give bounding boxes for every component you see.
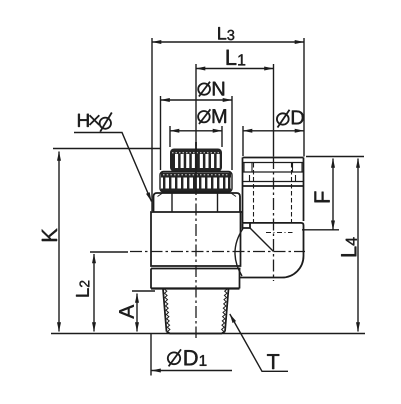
body: main valve body bbox=[151, 212, 243, 269]
wire: vertical centerline of body bbox=[195, 142, 197, 338]
dimension phiD1 bbox=[151, 334, 232, 376]
label T with leader bbox=[230, 314, 288, 371]
dimension L3 bbox=[152, 38, 304, 211]
port: one-touch fitting top cap bbox=[243, 158, 304, 224]
label HxPhi with leader bbox=[78, 113, 112, 132]
dimension L4 bbox=[357, 159, 359, 332]
label phiM bbox=[198, 109, 226, 124]
dimension L1 bbox=[196, 64, 274, 157]
dimension L2 bbox=[90, 252, 128, 332]
dimension phiN bbox=[161, 96, 233, 170]
dimension phiM bbox=[170, 126, 222, 147]
stem: male thread bbox=[163, 289, 229, 334]
hex: bottom hex of body bbox=[151, 269, 240, 289]
dimension K bbox=[53, 149, 160, 332]
port barrel hidden bore lines bbox=[254, 163, 293, 233]
label phiD bbox=[277, 110, 304, 128]
label phiD1 bbox=[168, 349, 207, 366]
elbow body bbox=[235, 223, 304, 278]
dimension A bbox=[132, 291, 155, 332]
bottom extension line bbox=[51, 333, 365, 335]
knob N: knurled flange band bbox=[160, 142, 232, 193]
label phiN bbox=[198, 82, 224, 97]
hex lock nut under knob bbox=[154, 193, 241, 212]
knob M: knurled adjustment knob top bbox=[170, 149, 222, 172]
wire: vertical centerline of top port bbox=[273, 157, 275, 281]
wire: horizontal centerline of elbow port axis bbox=[130, 251, 305, 253]
leader HxPhi bbox=[74, 133, 152, 202]
dimension phiD bbox=[243, 126, 304, 156]
dimension F bbox=[302, 157, 364, 230]
